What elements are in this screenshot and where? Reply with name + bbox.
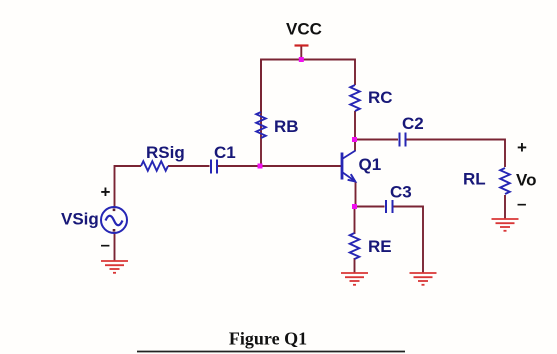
- svg-text:Q1: Q1: [359, 155, 382, 174]
- svg-text:C3: C3: [390, 183, 412, 202]
- svg-text:RC: RC: [368, 88, 393, 107]
- svg-text:VCC: VCC: [286, 20, 322, 39]
- svg-text:Vo: Vo: [516, 171, 536, 190]
- svg-text:+: +: [517, 138, 527, 157]
- svg-text:RB: RB: [274, 117, 299, 136]
- svg-text:–: –: [517, 194, 526, 213]
- svg-text:C2: C2: [402, 114, 424, 133]
- svg-text:Figure Q1: Figure Q1: [229, 329, 307, 349]
- svg-text:VSig: VSig: [61, 210, 99, 229]
- svg-text:RE: RE: [368, 237, 392, 256]
- svg-text:C1: C1: [214, 143, 236, 162]
- svg-text:RSig: RSig: [146, 143, 185, 162]
- svg-text:+: +: [101, 183, 111, 202]
- svg-text:RL: RL: [463, 170, 486, 189]
- svg-text:–: –: [101, 235, 110, 254]
